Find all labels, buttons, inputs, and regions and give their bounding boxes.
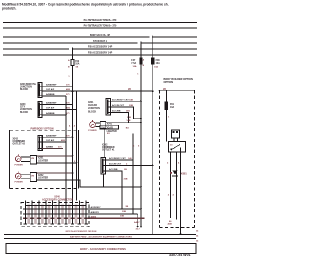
svg-text:1: 1 <box>168 117 170 119</box>
svg-text:BODY - ACCESSORY CONNECTIONS: BODY - ACCESSORY CONNECTIONS <box>80 247 126 251</box>
bus line 3 <box>3 37 197 38</box>
svg-text:14B: 14B <box>126 119 130 122</box>
svg-text:1: 1 <box>68 76 70 78</box>
footer line 1 <box>4 234 196 235</box>
svg-text:4: 4 <box>178 162 180 165</box>
line 4 hop gap <box>138 42 141 44</box>
fuse F48 <box>151 58 154 64</box>
svg-text:36.7: 36.7 <box>136 228 141 230</box>
svg-text:B1: B1 <box>107 133 111 135</box>
svg-text:2: 2 <box>167 163 169 165</box>
svg-text:AC/BODY: AC/BODY <box>91 206 102 209</box>
svg-text:BLOCK: BLOCK <box>88 111 97 113</box>
svg-text:[1H CIGAR: [1H CIGAR <box>101 126 113 129</box>
svg-text:X251: X251 <box>38 158 44 160</box>
svg-text:Modifikacii 54.02/54.10, 3307: Modifikacii 54.02/54.10, 3307 - Cepi raz… <box>2 2 169 6</box>
line 5 hop gap <box>69 48 72 50</box>
svg-text:A/BAR/BF: A/BAR/BF <box>46 102 57 105</box>
cigar drop wire <box>103 129 105 158</box>
svg-text:OPTION: OPTION <box>164 81 174 84</box>
wire vertical x66 <box>65 96 67 201</box>
svg-text:30B: 30B <box>124 178 128 180</box>
bus line 2 <box>3 28 197 29</box>
grid dashed box <box>21 202 89 226</box>
svg-text:VB: VB <box>31 176 34 178</box>
svg-text:ACC/BB: ACC/BB <box>112 110 121 113</box>
grid bottom ticks <box>24 223 88 225</box>
svg-text:X252: X252 <box>38 175 44 177</box>
svg-text:BODY/ACC B+ 4P: BODY/ACC B+ 4P <box>90 34 111 37</box>
connector X242 bracket <box>38 136 42 151</box>
body builder option dashed box right edge <box>194 90 196 227</box>
svg-text:F02: F02 <box>75 61 80 63</box>
svg-text:PWR/BODY OPTION: PWR/BODY OPTION <box>31 128 54 131</box>
svg-text:JUNCTION: JUNCTION <box>88 108 100 110</box>
svg-text:7.5A: 7.5A <box>131 62 136 65</box>
svg-text:VB: VB <box>31 158 34 160</box>
relay K1 box <box>169 142 186 153</box>
svg-text:6: 6 <box>138 145 140 147</box>
grid junction dots <box>25 208 87 219</box>
lighter 2 wire 1 <box>37 172 73 174</box>
svg-text:A/BAR/BF: A/BAR/BF <box>46 83 57 86</box>
svg-text:4: 4 <box>69 125 71 128</box>
svg-text:2: 2 <box>168 195 170 197</box>
svg-text:ACC/BODY CKT: ACC/BODY CKT <box>112 98 129 101</box>
svg-text:BLOCK: BLOCK <box>20 112 29 114</box>
svg-text:34: 34 <box>196 230 199 233</box>
svg-text:KEY IN ACCESSORY OR RUN: KEY IN ACCESSORY OR RUN <box>66 230 97 233</box>
wire V2 <box>76 91 78 200</box>
svg-text:30B: 30B <box>120 216 124 218</box>
wire F61 drop <box>165 90 167 141</box>
body builder option dashed box bottom edge <box>160 227 195 229</box>
svg-text:F/B ACCESSORY 14P: F/B ACCESSORY 14P <box>88 52 113 55</box>
lighter 2 wire 2 <box>37 180 141 187</box>
grid top bar <box>25 204 86 206</box>
left option box dashed border <box>10 130 79 188</box>
svg-text:LIGHTER: LIGHTER <box>38 178 48 180</box>
X240 wire 2 <box>42 109 77 111</box>
svg-text:5: 5 <box>133 145 135 147</box>
connector X240 bracket <box>38 102 42 118</box>
svg-text:X240: X240 <box>20 103 26 106</box>
junction V1-H1 <box>72 90 74 92</box>
svg-text:2B: 2B <box>128 89 131 91</box>
svg-text:F/B ACCESSORY 14P: F/B ACCESSORY 14P <box>88 46 113 49</box>
svg-text:3B1: 3B1 <box>126 111 131 113</box>
wire relay to footer <box>180 148 182 234</box>
line 3 hop gap <box>149 36 152 38</box>
relay contact <box>172 145 181 150</box>
svg-text:10A: 10A <box>156 62 161 65</box>
lighter 1 wire 1 <box>37 155 73 157</box>
svg-text:ACC/BB: ACC/BB <box>109 168 118 171</box>
grid pin columns <box>25 201 86 224</box>
body builder option dashed box top edge <box>159 89 195 91</box>
svg-text:prodolzh.: prodolzh. <box>2 7 16 11</box>
svg-text:571: 571 <box>66 94 70 96</box>
lighter 1 bracket <box>30 155 36 164</box>
fuse F61 <box>165 102 168 110</box>
X262 wire 2 <box>105 165 152 167</box>
svg-text:10A: 10A <box>170 106 175 109</box>
svg-text:OUTLET #2: OUTLET #2 <box>13 144 26 146</box>
X240 wire 1 <box>42 104 73 106</box>
svg-text:K081: K081 <box>181 172 187 175</box>
svg-text:F48: F48 <box>156 59 161 62</box>
X242 wire 2 <box>42 141 66 143</box>
bus line 1 <box>3 22 197 23</box>
svg-text:ACC/BODY CKT: ACC/BODY CKT <box>109 157 126 160</box>
svg-text:30B: 30B <box>127 117 131 119</box>
cigar wire 1 <box>106 122 141 124</box>
svg-text:30B: 30B <box>122 211 126 213</box>
bus line 4 <box>3 43 197 44</box>
wire V1 upper <box>72 47 74 91</box>
svg-text:POWER: POWER <box>15 164 24 166</box>
diode K081 <box>173 171 178 175</box>
svg-text:CH/CAB: CH/CAB <box>88 104 97 107</box>
svg-text:34: 34 <box>196 240 199 243</box>
bus line 5 <box>3 49 197 50</box>
svg-text:A4B: A4B <box>168 223 173 226</box>
svg-text:X201: X201 <box>88 102 94 104</box>
svg-text:1: 1 <box>137 74 139 76</box>
svg-text:STUD BAT 1: STUD BAT 1 <box>93 40 108 43</box>
svg-text:F47: F47 <box>131 59 136 62</box>
X242 wire 1 <box>42 136 72 138</box>
svg-text:ACCESSORY CONNECTOR: ACCESSORY CONNECTOR <box>42 199 73 202</box>
connector X203 bracket <box>38 83 42 98</box>
connector X201 bracket <box>106 99 110 115</box>
grid wire row B <box>23 213 138 215</box>
svg-text:POWER: POWER <box>15 182 24 184</box>
lighter 1 symbol <box>15 156 21 162</box>
fuse F02 <box>71 60 74 66</box>
svg-text:34: 34 <box>196 235 199 238</box>
svg-text:4: 4 <box>173 194 175 197</box>
svg-text:A: A <box>68 59 70 62</box>
svg-text:LIGHTER: LIGHTER <box>38 160 48 162</box>
svg-text:PA-7B/TRAILER TOW B+ 370: PA-7B/TRAILER TOW B+ 370 <box>84 19 117 22</box>
svg-text:A/BAR/BF: A/BAR/BF <box>46 134 57 137</box>
svg-text:30: 30 <box>170 145 173 147</box>
svg-text:3B: 3B <box>124 169 127 171</box>
X201 wire 2 <box>110 107 141 119</box>
X262 bottom pin drop <box>103 174 105 187</box>
svg-text:30B: 30B <box>129 105 133 107</box>
svg-text:1UP A/F: 1UP A/F <box>46 139 55 142</box>
X201 wire 1 <box>110 100 141 102</box>
fuse F47 <box>140 58 143 64</box>
svg-text:3B: 3B <box>125 206 128 208</box>
svg-text:10A: 10A <box>133 65 137 68</box>
wire V3 upper <box>140 41 142 226</box>
lighter 1 wire 2 <box>37 162 77 164</box>
footer line 2 <box>4 238 196 239</box>
svg-text:A4B7: A4B7 <box>134 221 140 224</box>
relay coil stubs <box>174 138 178 142</box>
svg-text:10A: 10A <box>154 65 158 68</box>
relay coil box <box>172 130 180 138</box>
svg-text:4: 4 <box>74 125 76 128</box>
svg-text:1B: 1B <box>75 66 78 68</box>
junction H1-V4 <box>152 90 154 92</box>
svg-text:A/BODY: A/BODY <box>91 211 100 214</box>
svg-text:10A: 10A <box>75 63 80 66</box>
body builder option dashed box left edge <box>159 90 161 227</box>
svg-text:A/BBB: A/BBB <box>46 146 53 149</box>
svg-text:1UP A/F: 1UP A/F <box>46 88 55 91</box>
X203 wire 1 <box>42 85 73 87</box>
junction x66 <box>65 114 67 116</box>
svg-text:A4B5: A4B5 <box>91 216 97 219</box>
wire V4 trunk <box>152 36 154 234</box>
cigar lighter symbol <box>90 122 96 128</box>
connector X262 bracket <box>101 158 105 175</box>
svg-text:ACC/B CKT: ACC/B CKT <box>109 163 122 166</box>
X262 wire 1 <box>105 134 132 214</box>
wire V1 lower to grid <box>72 91 74 201</box>
X203 wire 3 <box>42 95 66 97</box>
lighter 2 symbol <box>15 173 21 179</box>
svg-text:BLOCK: BLOCK <box>20 89 29 91</box>
svg-text:B4: B4 <box>126 127 130 130</box>
wire x137.7 drop <box>137 214 139 227</box>
footer title box <box>6 243 196 253</box>
svg-text:POWER: POWER <box>88 130 97 132</box>
svg-text:A/BBBB: A/BBBB <box>46 112 55 115</box>
svg-text:B: B <box>68 67 70 69</box>
cigar lighter bracket <box>100 122 106 129</box>
X262 wire 3 <box>105 171 122 209</box>
X242 wire 3 <box>42 148 63 150</box>
wire below K081 <box>170 177 172 219</box>
maroon wire <box>23 217 145 219</box>
svg-text:PA-7B/TRAILER TOW B+ 370: PA-7B/TRAILER TOW B+ 370 <box>84 25 117 28</box>
grid wire row A <box>23 208 141 210</box>
wire H1 2B feed <box>42 90 153 92</box>
svg-text:B: B <box>143 65 145 67</box>
svg-text:A: A <box>143 58 145 61</box>
junction V1 X242 <box>72 136 74 138</box>
lighter 2 bracket <box>30 173 36 182</box>
junction on footer line <box>179 233 181 235</box>
X201 wire 3 <box>110 113 128 123</box>
arrowheads into grid <box>137 226 139 228</box>
bus line 6 <box>3 55 197 56</box>
relay output wires <box>171 152 177 220</box>
X240 wire 3 <box>42 114 66 116</box>
svg-text:F61: F61 <box>170 104 175 106</box>
grid cell shading <box>27 205 84 225</box>
svg-text:ACC/B CKT: ACC/B CKT <box>112 104 125 107</box>
svg-text:1UP A/F: 1UP A/F <box>46 107 55 110</box>
svg-text:X242: X242 <box>13 137 19 140</box>
svg-text:14B: 14B <box>129 98 133 101</box>
svg-text:OUTLET #1: OUTLET #1 <box>102 150 115 152</box>
svg-text:A/BBBB: A/BBBB <box>46 93 55 96</box>
